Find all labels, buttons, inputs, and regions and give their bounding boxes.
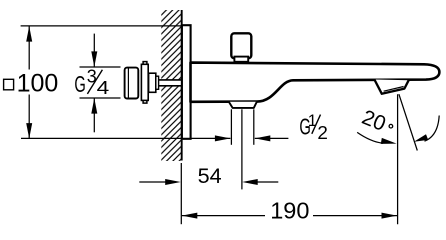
G1/2 outlet extension line right <box>253 109 255 145</box>
G3/4 bottom arrow <box>91 98 97 132</box>
G3/4 supply pipe through wall <box>159 80 184 86</box>
20 degree right arc <box>425 116 440 142</box>
svg-text:54: 54 <box>198 163 222 188</box>
svg-text:4: 4 <box>97 78 110 98</box>
svg-text:3: 3 <box>87 66 97 86</box>
knob neck <box>234 57 248 62</box>
right extension line from outlet tip for 190 <box>397 94 399 224</box>
left extension line (wall face) for 54 and 190 <box>180 163 182 224</box>
G3/4 top arrow <box>91 34 97 67</box>
G3/4 top extension line <box>80 66 121 68</box>
outlet center extension line for 54 <box>241 109 243 189</box>
G1/2 right arrowhead <box>255 135 270 141</box>
label 20 with degree mark <box>359 106 389 136</box>
20 degree left arc arrowhead <box>381 138 397 144</box>
diverter knob <box>231 33 251 58</box>
nut chamfer line <box>127 68 129 98</box>
190 left arrowhead <box>182 213 198 219</box>
G1/2 outlet trapezoid <box>229 102 257 108</box>
fitting block <box>149 73 156 92</box>
fitting flange <box>141 64 148 100</box>
wall face line <box>181 10 183 161</box>
54 left arrow <box>139 179 180 185</box>
svg-text:G: G <box>74 71 85 97</box>
G3/4 label <box>74 66 109 98</box>
G3/4 bottom extension line <box>80 97 121 99</box>
190 dimension line right segment <box>313 215 397 217</box>
G1/2 outlet extension line left <box>230 109 232 145</box>
wall plate (escutcheon) <box>182 25 191 139</box>
dimension 100: bottom extension line continuing as G1/2 left arrow leader <box>21 137 230 139</box>
20 degree left arc <box>357 132 383 143</box>
20 degree reference angled line <box>399 94 417 150</box>
aerator pocket under spout tip <box>374 80 408 94</box>
G1/2 label <box>299 112 328 143</box>
54 right arrow <box>242 179 278 185</box>
svg-text:190: 190 <box>270 197 309 223</box>
fitting tab <box>143 62 147 104</box>
dimension 100: top extension line <box>21 25 182 27</box>
G1/2 left arrowhead <box>215 135 231 141</box>
20 degree right arc arrowhead <box>414 134 428 142</box>
G3/4 connection fitting: nut <box>125 68 139 99</box>
190 right arrowhead <box>382 213 398 219</box>
square 100 dimension line with arrows <box>26 26 32 139</box>
fitting step <box>156 76 159 89</box>
spout body <box>191 63 440 102</box>
square symbol of 100 label <box>4 79 14 90</box>
aerator face inner line <box>384 87 404 92</box>
190 dimension line left segment <box>182 215 265 217</box>
svg-text:1: 1 <box>308 112 317 130</box>
svg-text:100: 100 <box>17 70 59 98</box>
G1/2 right arrow tail <box>255 137 289 139</box>
svg-text:2: 2 <box>317 123 328 143</box>
wall hatch band <box>161 10 181 161</box>
